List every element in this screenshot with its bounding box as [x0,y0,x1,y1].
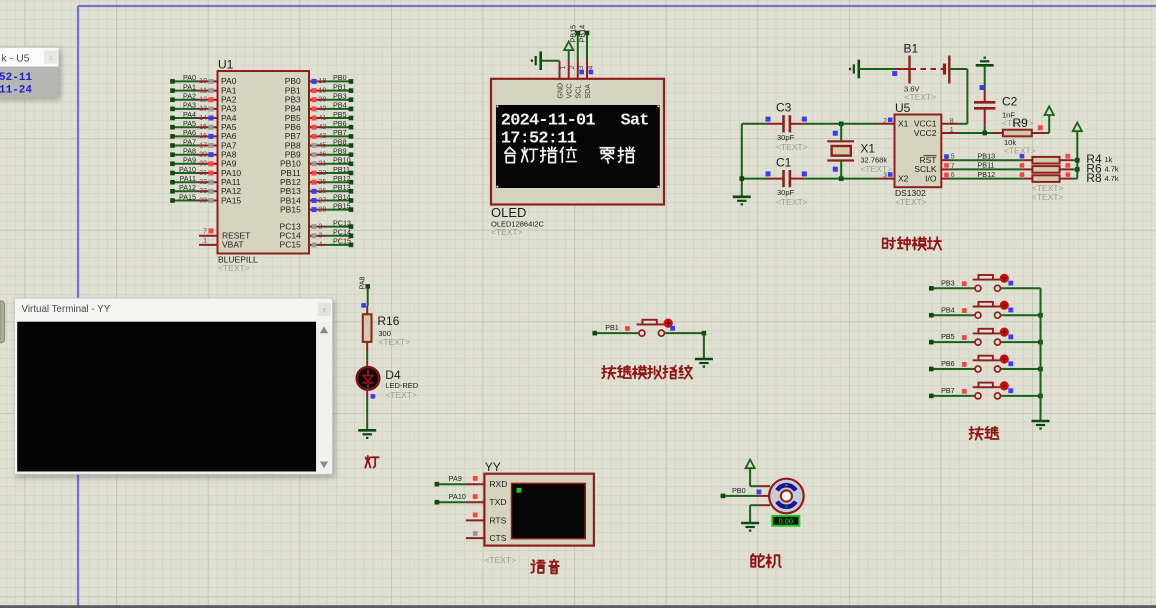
svg-text:PB12: PB12 [333,174,351,183]
push button (fingerprint) [637,320,667,336]
capacitor C1 30pF [766,156,807,207]
wire U5 VCC2 to R9 with junction from C2 [958,125,994,135]
voice label (Chinese) [531,560,545,573]
svg-text:x: x [322,305,326,314]
wire net PA8 to R16 [357,276,370,306]
svg-text:17: 17 [199,142,207,149]
svg-text:RXD: RXD [489,479,507,489]
button PB6 actuator (red circle) [1000,354,1009,363]
svg-text:7: 7 [951,163,955,170]
svg-text:10: 10 [199,78,207,85]
wire power to servo +pin [750,485,759,487]
svg-text:RTS: RTS [489,515,506,525]
C2 pin state square [980,85,985,90]
U1 pin 41 (PB5) with wire [285,110,354,123]
D4 pin state square [371,394,376,399]
svg-text:2: 2 [883,118,887,125]
svg-text:46: 46 [319,152,327,159]
U1 pin 10 (PA0) with wire [170,73,237,86]
wire net PB5 to button [929,332,973,344]
LED D4 LED-RED [357,360,419,400]
svg-text:C2: C2 [1002,95,1018,109]
OLED screen text line 3 (Chinese) [505,147,516,162]
U1 pin 3 (PC14) with wire [280,228,354,241]
U1 pin 22 (PB11) with wire [281,165,354,178]
OLED pin3 state square [579,70,584,75]
U1 pin 43 (PB7) with wire [285,128,354,141]
svg-text:PC14: PC14 [333,228,351,237]
svg-text:4: 4 [319,242,323,249]
button actuator (red circle) [664,319,673,328]
PB6 pin state square (red) [962,362,967,367]
svg-text:YY: YY [485,460,501,474]
svg-text:33: 33 [199,188,207,195]
capacitor C2 1nF [974,65,1034,128]
U1 pin 45 (PB8) with wire [285,137,354,150]
wire net PB7 to button [929,386,973,398]
svg-text:15: 15 [199,124,207,131]
U1 pin 25 (PB12) with wire [280,174,353,187]
svg-text:42: 42 [319,124,327,131]
svg-text:PB14: PB14 [578,25,587,43]
ground for OLED GND pin [532,51,560,70]
svg-text:31: 31 [199,170,207,177]
svg-text:X1: X1 [898,119,909,129]
svg-text:PA7: PA7 [183,137,196,146]
buttons label (Chinese) [970,427,983,440]
ground below C1 [733,196,751,199]
svg-text:PB13: PB13 [978,151,996,160]
svg-text:11: 11 [200,87,207,94]
svg-text:14: 14 [199,115,207,122]
ground for battery B1 [850,60,896,79]
svg-text:18: 18 [319,78,327,85]
svg-text:PB3: PB3 [941,278,955,287]
svg-text:16: 16 [199,133,207,140]
svg-text:PC15: PC15 [280,240,302,250]
svg-text:52-11: 52-11 [0,72,32,84]
svg-text:<TEXT>: <TEXT> [484,555,516,565]
svg-text:PB13: PB13 [333,183,351,192]
svg-text:PB1: PB1 [605,323,619,332]
servo pin state square (blue) [757,490,762,495]
button PB7 state square (blue) [1008,388,1013,393]
wire servo -pin to ground [750,505,759,522]
U1 pin 27 (PB14) with wire [280,192,353,205]
svg-text:PB10: PB10 [333,156,351,165]
PB4 pin state square (red) [962,308,967,313]
U5 pin 7 (SCLK) wire net PB11 [941,161,1023,170]
svg-text:43: 43 [319,133,327,140]
svg-text:2: 2 [319,223,323,230]
U1 pin 26 (PB13) with wire [280,183,353,196]
wire C3 to U5 X1 [805,122,878,127]
U1 pin 7 RESET [199,228,250,240]
OLED pin 3 stub [577,61,579,79]
svg-text:1: 1 [203,238,207,245]
svg-text:R16: R16 [377,314,399,328]
OLED pin 2 stub [568,61,570,79]
power symbol for servo [749,468,751,486]
svg-text:4.7k: 4.7k [1105,174,1119,183]
U1 pin 30 (PA9) with wire [170,156,237,169]
svg-text:X1: X1 [860,142,875,156]
button PB5 actuator (red circle) [1000,328,1009,337]
svg-text:B1: B1 [904,42,919,56]
svg-text:PA9: PA9 [449,474,462,483]
resistor R9 10k [994,116,1049,156]
YY TXD state square [473,494,478,499]
svg-text:PA3: PA3 [183,101,196,110]
wire B1 to U5 VCC1 [951,69,968,124]
clock module label (Chinese) [883,238,895,249]
crystal X1 32.768k [827,124,892,179]
power symbol for pullup resistors [1076,130,1078,132]
svg-text:TXD: TXD [489,497,506,507]
svg-text:PB4: PB4 [941,305,955,314]
svg-text:PA2: PA2 [183,92,196,101]
svg-text:12: 12 [199,97,207,104]
svg-text:40: 40 [319,106,327,113]
svg-text:4.7k: 4.7k [1105,165,1119,174]
svg-text:PB8: PB8 [333,137,347,146]
svg-text:VCC2: VCC2 [914,128,937,138]
B1 pin state square [892,71,897,76]
svg-text:U1: U1 [218,58,234,72]
wire net PB15 to OLED SCL [569,25,581,61]
svg-text:x: x [49,53,53,62]
wire button PB5 to bus [1002,340,1043,345]
wire C1 to U5 X2 [805,176,878,181]
bottom window edge strip [0,605,1156,608]
svg-text:PB15: PB15 [280,204,301,214]
button PB7 actuator (red circle) [1000,381,1009,390]
wire net PA9 to YY RXD [435,474,466,486]
svg-text:PA10: PA10 [179,165,196,174]
svg-text:PB0: PB0 [732,486,746,495]
svg-text:<TEXT>: <TEXT> [895,197,927,207]
wire net PA10 to YY TXD [435,492,466,504]
YY CTS state square [473,531,478,536]
YY RXD state square [473,476,478,481]
svg-text:k - U5: k - U5 [2,53,30,65]
left edge tab [0,301,5,343]
svg-text:PB11: PB11 [978,161,995,170]
svg-text:32: 32 [199,179,207,186]
wire R16 to D4 [366,351,368,360]
battery B1 3.6V [896,42,949,103]
svg-text:PB4: PB4 [333,101,347,110]
svg-text:PB14: PB14 [333,192,351,201]
voice module YY body [484,460,594,565]
U1 pin 17 (PA7) with wire [170,137,237,150]
svg-text:U5: U5 [895,101,911,115]
servo label (Chinese) [751,554,764,567]
R16 pin state square [361,303,366,308]
button PB6 state square (blue) [1008,361,1013,366]
wire net PB4 to button [929,305,973,317]
wire button PB7 to bus [1002,394,1043,399]
svg-text:45: 45 [319,142,327,149]
svg-text:25: 25 [319,179,327,186]
svg-text:SCL: SCL [576,85,583,99]
svg-text:VCC: VCC [567,84,574,99]
svg-text:PA6: PA6 [183,128,196,137]
svg-text:PA11: PA11 [179,174,196,183]
svg-text:R9: R9 [1013,116,1029,130]
U1 pin 16 (PA6) with wire [170,128,237,141]
svg-text:OLED: OLED [491,205,526,220]
U1 pin 11 (PA1) with wire [170,82,237,95]
inverted ground above C2 [976,64,994,67]
svg-text:28: 28 [319,206,327,213]
R9 pin state square [1038,125,1043,130]
svg-text:PB6: PB6 [941,359,955,368]
svg-text:5: 5 [951,154,955,161]
wire C3-C1 left vertical to ground [740,124,767,197]
svg-text:17:52:11: 17:52:11 [501,130,577,149]
ground below D4 [358,429,376,432]
svg-text:<TEXT>: <TEXT> [776,142,808,152]
wire net PB6 to button [929,359,973,371]
power symbol for OLED VCC pin [568,50,570,61]
svg-text:30pF: 30pF [777,188,795,197]
wire button to ground [666,331,706,359]
svg-text:SDA: SDA [585,84,592,99]
svg-text:PA0: PA0 [183,73,196,82]
U1 pin 12 (PA2) with wire [170,92,237,105]
svg-text:<TEXT>: <TEXT> [491,227,523,237]
PB3 pin state square (red) [962,281,967,286]
svg-text:1: 1 [950,127,954,134]
R4 R6 R8 labels [1032,152,1119,202]
svg-text:0.00: 0.00 [779,516,793,525]
svg-text:<TEXT>: <TEXT> [776,197,808,207]
OLED labels [491,205,545,237]
sheet border (blue) [78,5,1156,7]
svg-text:2024-11-01: 2024-11-01 [501,112,596,131]
svg-text:PB15: PB15 [333,201,351,210]
button PB4 actuator (red circle) [1000,301,1009,310]
svg-text:3: 3 [578,66,585,70]
U1 pin 21 (PB10) with wire [280,156,353,169]
svg-text:PA10: PA10 [449,492,466,501]
servo angle display 0.00 [772,516,799,526]
lamp label (Chinese) [365,456,378,468]
U1 pin 2 (PC13) with wire [280,218,354,231]
svg-text:PA5: PA5 [183,119,196,128]
U1 pin 15 (PA5) with wire [170,119,237,132]
wire D4 to ground [366,397,368,430]
resistor R16 300 [363,306,410,351]
svg-text:PC15: PC15 [333,237,351,246]
U1 pin 29 (PA8) with wire [170,147,237,160]
svg-text:13: 13 [199,106,207,113]
svg-text:7: 7 [203,229,207,236]
power symbol at R9 [1048,115,1050,133]
virtual terminal window [14,298,332,474]
push button PB7 [973,383,1003,399]
wire button PB3 to bus [1002,287,1040,289]
U5 pin 6 (I/O) wire net PB12 [941,170,1023,179]
popup window fragment (k - U5) [0,48,59,98]
svg-text:PA1: PA1 [183,82,196,91]
svg-text:X2: X2 [898,173,909,183]
U1 pin 42 (PB6) with wire [285,119,354,132]
PB7 pin state square (red) [962,389,967,394]
wire button PB4 to bus [1002,313,1043,318]
svg-text:38: 38 [199,197,207,204]
U1 pin 38 (PA15) with wire [170,192,241,205]
svg-text:<TEXT>: <TEXT> [385,390,417,400]
ground for servo [741,522,759,525]
svg-text:3: 3 [883,173,887,180]
wire net PB0 to servo [721,486,759,498]
svg-text:PA8: PA8 [357,276,366,289]
U1 pin 40 (PB4) with wire [285,101,354,114]
U1 pin 32 (PA11) with wire [170,174,241,187]
svg-text:PA8: PA8 [183,147,196,156]
microcontroller U1 BLUEPILL [218,58,310,274]
svg-text:C3: C3 [776,101,792,115]
svg-text:30: 30 [199,161,207,168]
U5 pin 3 (X2) [878,172,895,179]
svg-text:PB7: PB7 [941,386,955,395]
U5 pin 2 (X1) [878,118,895,125]
svg-text:PB0: PB0 [333,73,347,82]
wire net PB14 to OLED SDA [578,25,590,61]
YY pin CTS [466,533,507,543]
svg-text:CTS: CTS [489,533,506,543]
svg-text:30pF: 30pF [777,133,795,142]
svg-text:11-24: 11-24 [0,85,32,97]
YY pin TXD [466,497,507,507]
svg-text:PB5: PB5 [941,332,955,341]
PB5 pin state square (red) [962,335,967,340]
svg-text:PB5: PB5 [333,110,347,119]
svg-text:D4: D4 [385,368,401,382]
resistor R8 4.7k [1023,175,1077,182]
U5 pin 1 (VCC2) [941,127,958,134]
svg-text:39: 39 [319,97,327,104]
YY RTS state square [473,513,478,518]
svg-text:<TEXT>: <TEXT> [860,164,892,174]
svg-text:PB12: PB12 [978,170,996,179]
svg-text:PB1: PB1 [333,82,347,91]
svg-text:8: 8 [950,118,954,125]
svg-text:19: 19 [319,87,327,94]
U1 pin 1 VBAT [199,238,244,250]
svg-text:GND: GND [557,83,564,99]
U1 pin 14 (PA4) with wire [170,110,237,123]
svg-text:I/O: I/O [925,173,937,183]
svg-text:27: 27 [319,197,327,204]
OLED pin 1 stub [559,61,561,79]
svg-text:Sat: Sat [621,112,649,131]
svg-text:<TEXT>: <TEXT> [1032,192,1064,202]
wire button PB6 to bus [1002,367,1043,372]
svg-text:21: 21 [319,161,327,168]
svg-text:<TEXT>: <TEXT> [378,337,410,347]
svg-text:PB11: PB11 [333,165,350,174]
U5 pin 8 (VCC1) [941,118,958,125]
svg-text:PB6: PB6 [333,119,347,128]
OLED pin 4 stub [586,61,588,79]
push button PB6 [973,356,1003,372]
svg-text:PA15: PA15 [179,192,196,201]
capacitor C3 30pF [766,101,807,153]
svg-text:4: 4 [587,66,594,70]
PB1 button state square (blue) [670,326,675,331]
svg-text:41: 41 [319,115,327,122]
button PB4 state square (blue) [1008,308,1013,313]
svg-text:1k: 1k [1105,155,1113,164]
button bus vertical wire [1040,288,1042,420]
fingerprint button label (Chinese) [602,366,615,379]
clock chip U5 DS1302 [895,101,942,207]
U1 pin 13 (PA3) with wire [170,101,237,114]
wire net PB3 to button [929,278,973,290]
U5 pin 5 (RST) wire net PB13 [941,151,1023,160]
U1 pin 46 (PB9) with wire [285,147,354,160]
U1 pin 33 (PA12) with wire [170,183,241,196]
svg-text:1: 1 [560,66,567,70]
U1 pin 39 (PB3) with wire [285,92,354,105]
svg-text:2: 2 [569,66,576,70]
pullup bus wire [1075,131,1080,179]
push button PB3 [973,275,1003,291]
OLED pin4 state square [589,70,594,75]
svg-text:PB7: PB7 [333,128,347,137]
svg-text:6: 6 [951,172,955,179]
svg-text:PA12: PA12 [179,183,196,192]
svg-text:PA15: PA15 [221,195,241,205]
svg-text:PA9: PA9 [183,156,196,165]
button PB3 actuator (red circle) [1000,274,1009,283]
OLED display module body [491,79,664,205]
svg-text:3: 3 [319,233,323,240]
svg-text:PC13: PC13 [333,218,351,227]
U1 pin 28 (PB15) with wire [280,201,353,214]
U1 pin 4 (PC15) with wire [280,237,354,250]
svg-text:Virtual Terminal - YY: Virtual Terminal - YY [22,304,111,315]
svg-text:PB9: PB9 [333,147,347,156]
ground for buttons [1032,420,1050,423]
svg-text:22: 22 [319,170,327,177]
svg-text:29: 29 [199,152,207,159]
svg-text:PB15: PB15 [569,25,578,43]
servo motor body [759,479,804,514]
wire net PB1 to button [592,323,637,335]
svg-text:C1: C1 [776,156,792,170]
PB1 pin state square (red) [625,326,630,331]
svg-text:R8: R8 [1086,171,1102,185]
button PB3 state square (blue) [1008,281,1013,286]
svg-text:<TEXT>: <TEXT> [218,263,250,273]
resistor R4 1k [1023,157,1077,164]
U1 pin 19 (PB1) with wire [285,82,354,95]
svg-text:PA4: PA4 [183,110,196,119]
YY pin RTS [466,515,507,525]
ground for PB1 button [695,358,713,361]
svg-text:LED-RED: LED-RED [385,381,419,390]
YY pin RXD [466,479,507,489]
svg-text:VBAT: VBAT [222,240,244,250]
button PB5 state square (blue) [1008,335,1013,340]
U1 pin 31 (PA10) with wire [170,165,241,178]
resistor R6 4.7k [1023,166,1077,173]
push button PB5 [973,329,1003,345]
